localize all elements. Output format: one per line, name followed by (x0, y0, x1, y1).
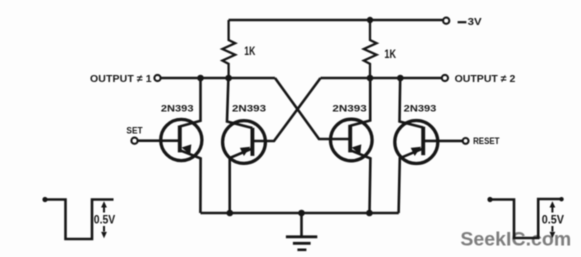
svg-text:OUTPUT ≠ 2: OUTPUT ≠ 2 (455, 73, 516, 85)
svg-text:2N393: 2N393 (404, 103, 437, 114)
svg-text:1K: 1K (384, 49, 396, 61)
svg-text:0.5V: 0.5V (94, 213, 115, 227)
svg-text:RESET: RESET (473, 136, 500, 146)
svg-text:0.5V: 0.5V (542, 213, 564, 227)
svg-text:2N393: 2N393 (232, 103, 266, 114)
svg-text:2N393: 2N393 (161, 103, 194, 114)
svg-text:3V: 3V (468, 16, 482, 28)
svg-text:SET: SET (126, 125, 143, 135)
svg-text:OUTPUT ≠ 1: OUTPUT ≠ 1 (90, 73, 152, 85)
svg-text:1K: 1K (244, 46, 256, 58)
svg-text:2N393: 2N393 (332, 103, 366, 114)
